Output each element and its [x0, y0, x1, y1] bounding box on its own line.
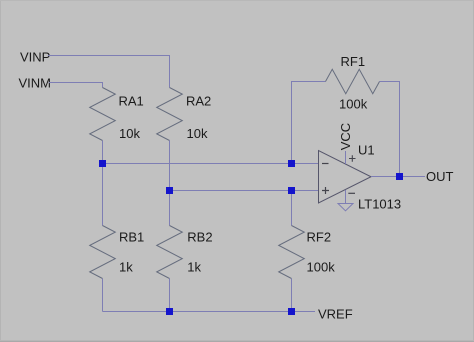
- node B junction feedback/minus-input: [288, 160, 295, 167]
- svg-text:RA1: RA1: [119, 94, 144, 109]
- node C junction RA2/RB2/rail: [166, 187, 173, 194]
- wire minus input rail: [103, 163, 319, 165]
- svg-text:RF2: RF2: [307, 230, 332, 245]
- resistor RB1: [90, 164, 145, 312]
- resistor RF2: [279, 191, 335, 312]
- wire plus input rail: [170, 190, 319, 192]
- pin + input marker: [322, 187, 329, 194]
- svg-text:VINM: VINM: [19, 76, 52, 91]
- svg-text:U1: U1: [358, 143, 375, 158]
- wire VINP to RA2 top: [48, 56, 170, 88]
- pin VEE: [345, 190, 347, 204]
- svg-text:RA2: RA2: [186, 94, 211, 109]
- resistor RA2: [157, 88, 212, 142]
- svg-text:VCC: VCC: [338, 123, 353, 150]
- resistor RB2: [157, 191, 213, 312]
- wire RA2 bottom lead crossing rail to plus rail: [169, 141, 171, 191]
- svg-text:10k: 10k: [119, 126, 140, 141]
- ground VEE symbol: [338, 204, 353, 211]
- pin - input marker: [322, 163, 329, 165]
- node A junction RA1/RB1/rail: [99, 160, 106, 167]
- svg-text:VREF: VREF: [318, 307, 353, 322]
- svg-text:RB1: RB1: [119, 230, 144, 245]
- svg-text:RF1: RF1: [341, 54, 366, 69]
- svg-text:10k: 10k: [187, 126, 208, 141]
- node E junction RB2/bottom rail: [166, 308, 173, 315]
- resistor RF1: [292, 54, 400, 177]
- svg-text:1k: 1k: [187, 260, 201, 275]
- svg-text:1k: 1k: [119, 260, 133, 275]
- wire op-amp output to OUT: [371, 176, 425, 178]
- svg-text:100k: 100k: [307, 260, 336, 275]
- wire VINM to RA1 top: [49, 83, 103, 88]
- svg-text:LT1013: LT1013: [358, 197, 401, 212]
- svg-text:100k: 100k: [339, 97, 368, 112]
- pin VCC: [345, 151, 347, 164]
- node F junction RF2/bottom rail: [288, 308, 295, 315]
- resistor RA1: [90, 88, 144, 142]
- wire RA1 bottom lead: [102, 141, 104, 164]
- op-amp U1: [319, 123, 402, 212]
- wire VREF bottom rail: [103, 311, 316, 313]
- node G junction output/feedback: [396, 173, 403, 180]
- svg-text:VINP: VINP: [20, 50, 50, 65]
- node D junction RF2/plus-input: [288, 187, 295, 194]
- svg-text:RB2: RB2: [187, 230, 212, 245]
- svg-text:OUT: OUT: [426, 169, 454, 184]
